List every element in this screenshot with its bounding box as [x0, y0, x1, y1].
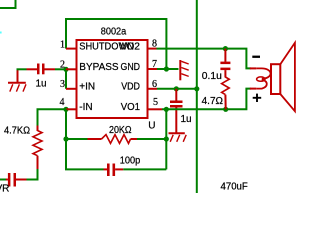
svg-text:0.1u: 0.1u: [202, 71, 222, 82]
resistor 20K (feedback): [88, 135, 138, 144]
wire VDD row: [157, 88, 197, 90]
wire 20K row right: [137, 138, 166, 140]
pin 2 BYPASS: [66, 68, 77, 70]
wire VR input: [0, 179, 6, 181]
label plus: [253, 94, 262, 102]
svg-text:U: U: [148, 120, 155, 131]
capacitor 1u (bypass, left): [27, 64, 56, 75]
ground (left, at 1u cap): [8, 69, 26, 91]
svg-text:2: 2: [60, 59, 65, 70]
svg-text:VO2: VO2: [120, 42, 141, 53]
svg-text:-IN: -IN: [79, 102, 92, 113]
svg-text:8002a: 8002a: [101, 26, 127, 37]
node VDD cap junction: [174, 86, 179, 91]
capacitor 100p (feedback): [104, 164, 124, 177]
node pin2 junction: [63, 67, 68, 72]
svg-text:1: 1: [60, 40, 65, 51]
speaker terminal bottom: [250, 88, 256, 90]
wire 20K row left: [66, 138, 88, 140]
wire top bus from pin1 to pin7 column: [66, 19, 166, 69]
node zobel top junction: [223, 46, 228, 51]
svg-text:1u: 1u: [181, 114, 192, 125]
wire -IN row: [38, 109, 67, 126]
capacitor 0.1u (zobel): [220, 49, 230, 78]
svg-text:1u: 1u: [36, 78, 47, 89]
svg-text:VO1: VO1: [121, 102, 141, 113]
svg-text:+IN: +IN: [79, 82, 95, 93]
speaker coil loop: [257, 77, 265, 81]
wire pin2 to pin3: [65, 69, 67, 89]
node pin7 junction: [164, 66, 169, 71]
node VO1 junction: [164, 107, 169, 112]
svg-text:100p: 100p: [120, 155, 141, 166]
svg-text:7: 7: [152, 59, 157, 70]
wire gnd to capacitor C2 (1u): [17, 68, 27, 70]
pin 5 VO1: [148, 108, 163, 110]
wire VO1 row to speaker: [162, 89, 251, 110]
pin 1 SHUTDOWN: [66, 48, 77, 50]
node feedback left junction: [63, 136, 68, 141]
ground (below VDD bypass cap): [169, 133, 187, 142]
capacitor 1u (VDD bypass, right): [170, 89, 183, 133]
pin 3 +IN: [66, 88, 77, 90]
node marker (cyan artifact dot): [0, 32, 2, 34]
capacitor VR coupling: [6, 173, 27, 187]
pin 6 VDD: [148, 88, 158, 90]
resistor 4.7Ω (zobel): [222, 77, 230, 109]
wire 100p to right vertical: [123, 168, 166, 170]
op-amp IC U (8002a) box: [77, 40, 148, 118]
wire top-left corner net: [0, 0, 16, 8]
svg-text:20KΩ: 20KΩ: [109, 125, 132, 136]
wire cap to pin2: [55, 68, 66, 70]
node VDD rail junction: [194, 86, 199, 91]
node pin4 junction: [63, 107, 68, 112]
svg-text:6: 6: [152, 79, 157, 90]
speaker coil upper bump: [256, 68, 270, 78]
ground (pin7, right-facing): [180, 60, 188, 80]
label minus: [252, 56, 260, 58]
svg-text:VDD: VDD: [121, 82, 140, 93]
svg-text:3: 3: [60, 79, 65, 90]
speaker coil lower bump: [256, 80, 266, 89]
svg-text:VR: VR: [0, 184, 9, 194]
svg-text:4.7KΩ: 4.7KΩ: [4, 125, 30, 136]
wire feedback left vertical: [66, 109, 104, 169]
wire pin7 to ground: [157, 68, 179, 70]
speaker cone: [280, 43, 295, 111]
wire VO2 row to speaker: [157, 49, 251, 69]
resistor 4.7K (input): [33, 126, 42, 170]
pin 7 GND: [148, 68, 158, 70]
svg-text:5: 5: [153, 97, 158, 108]
svg-text:GND: GND: [121, 62, 141, 73]
pin 8 VO2: [148, 48, 157, 50]
svg-text:470uF: 470uF: [221, 181, 248, 192]
speaker LS: [250, 43, 295, 111]
svg-text:4: 4: [60, 97, 65, 108]
speaker terminal top: [250, 67, 256, 69]
pin 4 -IN: [66, 108, 77, 110]
svg-text:8: 8: [152, 39, 157, 50]
node feedback right junction: [164, 136, 169, 141]
wire VDD supply rail (vertical, full height): [196, 0, 198, 193]
wire feedback right vertical: [165, 109, 167, 169]
svg-text:BYPASS: BYPASS: [79, 62, 119, 73]
wire 4.7K bottom to VR cap: [27, 169, 38, 180]
node zobel bottom junction: [223, 107, 228, 112]
svg-text:4.7Ω: 4.7Ω: [202, 96, 224, 107]
speaker driver rectangle: [271, 64, 280, 94]
